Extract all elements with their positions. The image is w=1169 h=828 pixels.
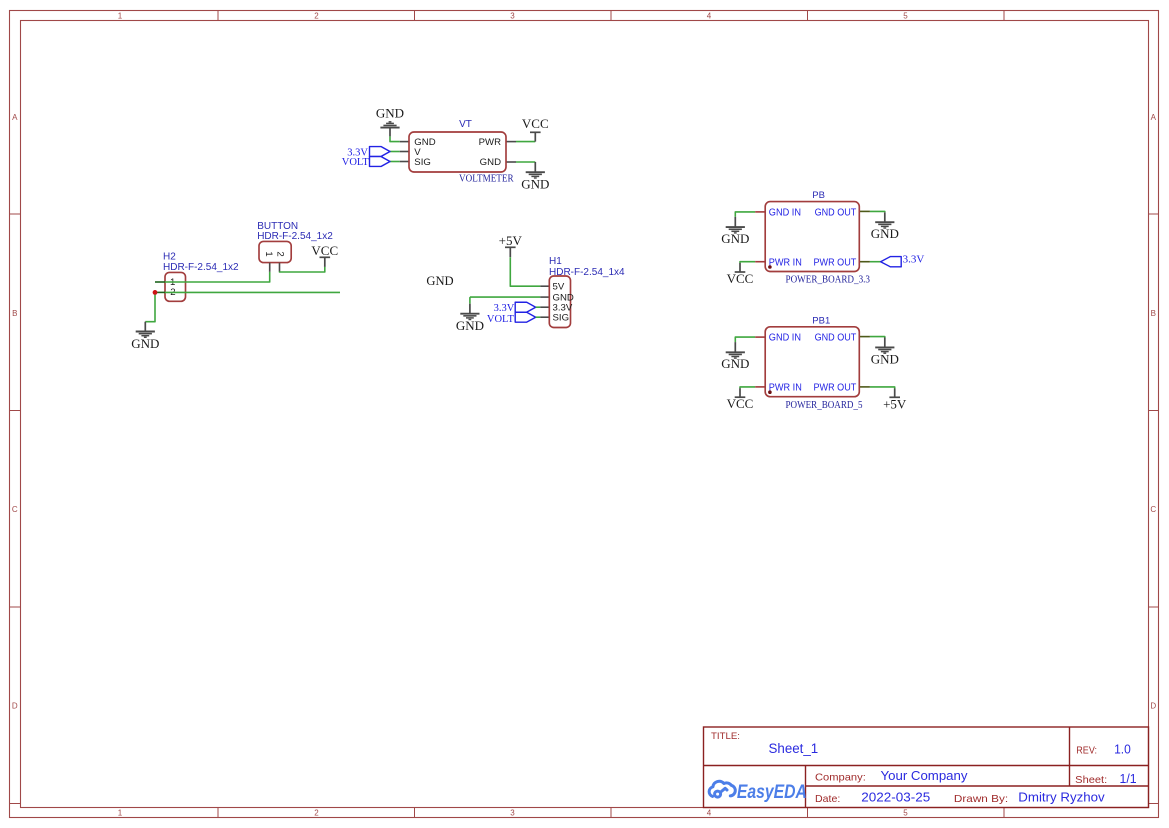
power board PB1 body bbox=[765, 327, 859, 397]
ground GND right of PB bbox=[884, 212, 886, 222]
svg-text:GND: GND bbox=[456, 318, 484, 333]
svg-text:GND: GND bbox=[721, 356, 749, 371]
wire VOLT flag to H1 bbox=[536, 316, 541, 318]
svg-text:Drawn By:: Drawn By: bbox=[954, 793, 1008, 805]
svg-text:EasyEDA: EasyEDA bbox=[737, 782, 807, 803]
power flag VCC at PB bbox=[739, 263, 741, 272]
ground GND right of PB1 bbox=[884, 338, 886, 348]
svg-text:PWR IN: PWR IN bbox=[769, 258, 802, 269]
svg-text:VCC: VCC bbox=[727, 271, 754, 286]
wire net flag 3.3V to VT V pin bbox=[390, 151, 400, 153]
power flag VCC at BUTTON bbox=[324, 257, 326, 267]
pin-1 dot of PB bbox=[768, 265, 772, 269]
svg-text:GND: GND bbox=[521, 177, 549, 192]
svg-text:1: 1 bbox=[263, 251, 274, 256]
svg-text:VT: VT bbox=[459, 119, 472, 130]
ground GND at VT right bbox=[534, 162, 536, 172]
wire H2 pin1 to BUTTON pin1 bbox=[165, 272, 270, 282]
svg-text:1.0: 1.0 bbox=[1114, 741, 1131, 756]
voltmeter U VT pins right bbox=[506, 141, 516, 143]
svg-text:Sheet:: Sheet: bbox=[1075, 774, 1107, 786]
svg-text:SIG: SIG bbox=[553, 313, 570, 324]
net flag 3.3V at H1 bbox=[515, 302, 536, 312]
svg-text:HDR-F-2.54_1x2: HDR-F-2.54_1x2 bbox=[163, 262, 239, 273]
wire PB1 PWR OUT to +5V bbox=[870, 387, 895, 389]
svg-text:VOLT: VOLT bbox=[487, 314, 515, 325]
ground GND at H1 bbox=[469, 304, 471, 314]
header BUTTON pin 1 bbox=[269, 263, 271, 272]
wire PB GND OUT to ground bbox=[870, 210, 885, 213]
svg-text:PWR: PWR bbox=[479, 137, 501, 148]
svg-text:VOLTMETER: VOLTMETER bbox=[459, 174, 514, 185]
power flag VCC at PB1 bbox=[739, 388, 741, 397]
net flag VOLT at H1 bbox=[515, 312, 536, 322]
svg-text:GND: GND bbox=[721, 231, 749, 246]
svg-text:3.3V: 3.3V bbox=[494, 303, 515, 314]
svg-text:Company:: Company: bbox=[815, 771, 866, 783]
wire H2 pin2 net stub bbox=[165, 291, 340, 293]
svg-text:A: A bbox=[1151, 113, 1157, 122]
header BUTTON body bbox=[259, 241, 291, 262]
junction at H2 pin 2 bbox=[153, 290, 158, 295]
svg-text:GND: GND bbox=[871, 226, 899, 241]
svg-text:1: 1 bbox=[118, 11, 123, 20]
svg-text:VCC: VCC bbox=[311, 243, 338, 258]
wire VT GND pin to ground bbox=[390, 136, 400, 141]
svg-text:2022-03-25: 2022-03-25 bbox=[861, 790, 930, 805]
svg-text:D: D bbox=[12, 702, 18, 711]
header BUTTON pin 2 bbox=[279, 263, 281, 272]
svg-text:SIG: SIG bbox=[414, 157, 431, 168]
header H2 pin 2 bbox=[155, 291, 165, 293]
svg-text:5: 5 bbox=[903, 808, 908, 817]
svg-text:3: 3 bbox=[510, 11, 515, 20]
svg-text:REV:: REV: bbox=[1076, 745, 1097, 756]
wire PB PWR OUT to 3.3V flag bbox=[870, 261, 881, 263]
header H1 pins bbox=[540, 285, 549, 287]
svg-text:4: 4 bbox=[707, 808, 712, 817]
wire VT PWR to VCC bbox=[516, 141, 535, 143]
power board PB1 pins bbox=[755, 336, 765, 338]
wire PB1 GND OUT to ground bbox=[870, 336, 885, 339]
title block grid bbox=[704, 727, 1149, 808]
svg-text:H2: H2 bbox=[163, 251, 176, 262]
voltmeter VT body bbox=[409, 132, 506, 172]
power flag +5V at PB1 output bbox=[894, 389, 896, 398]
svg-text:A: A bbox=[12, 113, 18, 122]
svg-text:B: B bbox=[12, 309, 17, 318]
svg-text:VOLT: VOLT bbox=[342, 157, 370, 168]
svg-text:C: C bbox=[12, 505, 18, 514]
power board PB pins bbox=[755, 211, 765, 213]
svg-text:PB: PB bbox=[812, 190, 825, 201]
wire H2 pin2 to ground bbox=[145, 293, 155, 322]
svg-text:PWR OUT: PWR OUT bbox=[814, 383, 857, 394]
net flag VOLT bbox=[370, 157, 391, 167]
svg-text:GND: GND bbox=[480, 157, 501, 168]
svg-text:Date:: Date: bbox=[815, 793, 840, 805]
wire +5V to H1 5V pin bbox=[510, 257, 540, 286]
net flag 3.3V at PB output bbox=[881, 257, 902, 267]
power flag VCC at VT bbox=[534, 132, 536, 141]
wire PB1 GND IN to ground bbox=[735, 337, 755, 342]
svg-text:TITLE:: TITLE: bbox=[711, 731, 740, 741]
wire PB1 PWR IN to VCC bbox=[740, 387, 755, 388]
svg-text:2: 2 bbox=[314, 808, 319, 817]
power board PB body bbox=[765, 202, 859, 272]
wire net flag VOLT to VT SIG pin bbox=[390, 161, 400, 163]
svg-text:Sheet_1: Sheet_1 bbox=[769, 741, 819, 756]
svg-text:+5V: +5V bbox=[883, 396, 907, 411]
svg-text:VCC: VCC bbox=[727, 396, 754, 411]
svg-text:B: B bbox=[1151, 309, 1156, 318]
header H2 body bbox=[165, 272, 186, 301]
svg-text:GND: GND bbox=[131, 336, 159, 351]
svg-text:POWER_BOARD_3.3: POWER_BOARD_3.3 bbox=[786, 275, 871, 286]
svg-text:4: 4 bbox=[707, 11, 712, 20]
header H1 body bbox=[549, 276, 570, 328]
svg-text:1: 1 bbox=[118, 808, 123, 817]
pin-1 dot of PB1 bbox=[768, 390, 772, 394]
wire H1 GND pin to ground bbox=[470, 296, 540, 298]
ground GND left of PB1 bbox=[734, 342, 736, 352]
svg-text:GND: GND bbox=[376, 105, 404, 120]
wire BUTTON pin2 to VCC bbox=[280, 267, 325, 272]
svg-text:POWER_BOARD_5: POWER_BOARD_5 bbox=[786, 400, 863, 411]
svg-text:Your Company: Your Company bbox=[881, 768, 969, 783]
power flag +5V bbox=[509, 247, 511, 257]
svg-text:GND IN: GND IN bbox=[769, 333, 801, 344]
wire PB PWR IN to VCC bbox=[740, 262, 755, 263]
net flag 3.3V bbox=[370, 147, 391, 157]
wire 3.3V flag to H1 bbox=[536, 306, 541, 308]
svg-text:C: C bbox=[1150, 505, 1156, 514]
svg-text:PB1: PB1 bbox=[812, 315, 830, 326]
svg-text:VCC: VCC bbox=[522, 116, 549, 131]
svg-text:2: 2 bbox=[274, 251, 285, 256]
svg-text:3: 3 bbox=[510, 808, 515, 817]
ground GND at VT GND-in bbox=[389, 128, 391, 137]
svg-text:5V: 5V bbox=[553, 282, 565, 293]
svg-text:GND OUT: GND OUT bbox=[815, 207, 857, 218]
svg-text:2: 2 bbox=[314, 11, 319, 20]
voltmeter U VT pins left bbox=[400, 141, 409, 143]
svg-text:PWR OUT: PWR OUT bbox=[814, 258, 857, 269]
svg-text:GND: GND bbox=[426, 274, 453, 288]
svg-text:H1: H1 bbox=[549, 256, 562, 267]
svg-text:5: 5 bbox=[903, 11, 908, 20]
svg-text:D: D bbox=[1150, 702, 1156, 711]
svg-text:PWR IN: PWR IN bbox=[769, 383, 802, 394]
wire VT GND out to ground bbox=[516, 161, 535, 163]
svg-text:HDR-F-2.54_1x2: HDR-F-2.54_1x2 bbox=[257, 231, 333, 242]
svg-text:GND OUT: GND OUT bbox=[815, 333, 857, 344]
EasyEDA logo bbox=[709, 781, 735, 797]
ground GND below H2 bbox=[144, 322, 146, 332]
svg-text:+5V: +5V bbox=[499, 233, 523, 248]
ground GND left of PB bbox=[734, 217, 736, 227]
wire PB GND IN to ground bbox=[735, 212, 755, 217]
svg-text:GND: GND bbox=[871, 351, 899, 366]
svg-text:1/1: 1/1 bbox=[1120, 771, 1137, 786]
svg-text:GND IN: GND IN bbox=[769, 207, 801, 218]
svg-text:3.3V: 3.3V bbox=[903, 254, 925, 266]
header H2 pin 1 bbox=[155, 281, 165, 283]
svg-text:Dmitry Ryzhov: Dmitry Ryzhov bbox=[1018, 790, 1105, 805]
